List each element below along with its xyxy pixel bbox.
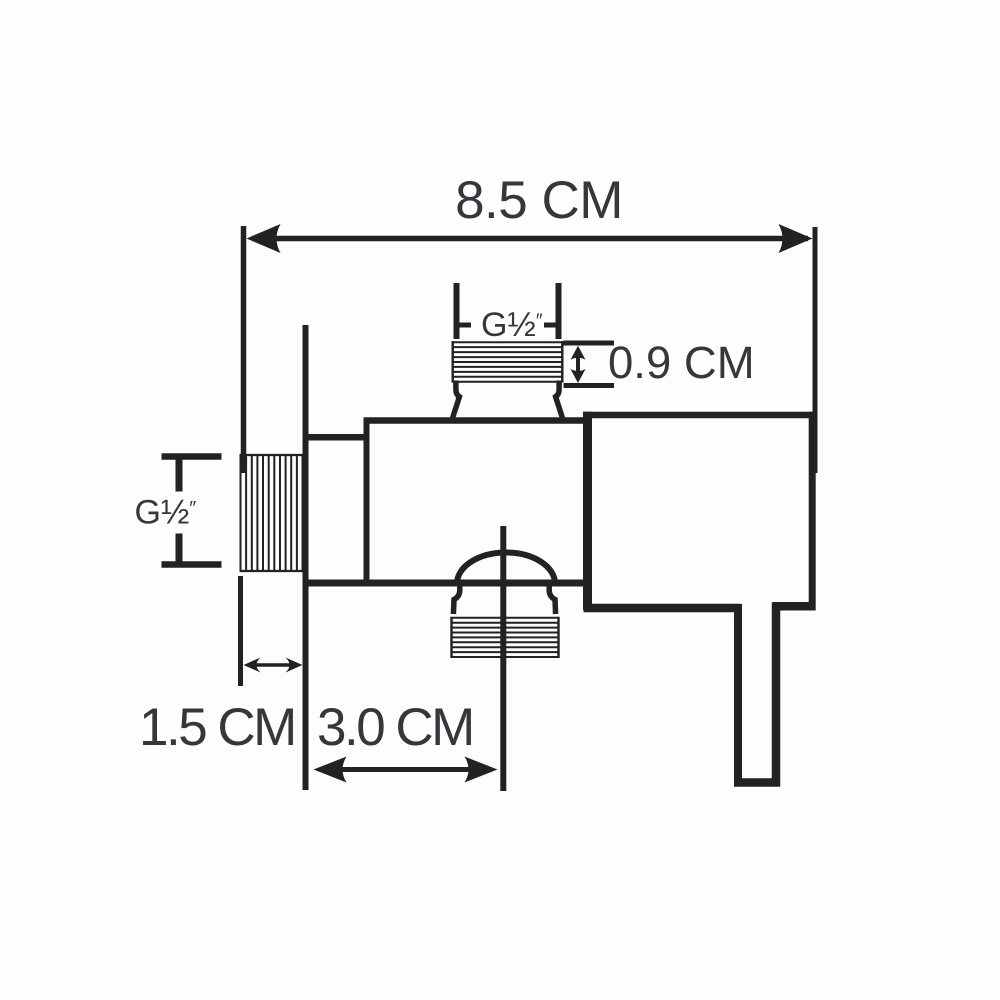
- dimension 1.5 CM label: [139, 698, 295, 757]
- svg-text:3.0 CM: 3.0 CM: [317, 698, 473, 757]
- bottom port collar left profile: [453, 583, 459, 614]
- dimension 0.9 CM tick bottom: [564, 383, 615, 388]
- left port G half-inch dimension stem upper: [176, 457, 183, 492]
- left port G half-inch dimension top bar: [162, 453, 222, 460]
- top port G half-inch label: [481, 306, 543, 344]
- dimension 8.5 CM arrowhead left: [247, 224, 281, 253]
- top port neck left profile: [453, 381, 460, 418]
- handle stem bottom edge: [734, 778, 780, 787]
- top port G half-inch tick right: [544, 323, 559, 328]
- dimension 1.5 CM extension line: [238, 576, 243, 686]
- valve body bottom edge: [303, 580, 589, 587]
- valve body left edge: [364, 418, 370, 587]
- bottom port threads: [452, 617, 559, 658]
- dimension 8.5 CM label: [455, 171, 623, 230]
- dimension 3.0 CM label: [317, 698, 473, 757]
- valve body right and handle block left column: [583, 412, 592, 610]
- valve body top edge: [364, 417, 590, 424]
- bottom port dome: [457, 553, 555, 584]
- dimension 1.5 CM arrowhead left: [244, 658, 261, 673]
- valve neck top edge: [303, 434, 367, 441]
- dimension 0.9 CM arrowhead up: [571, 346, 586, 360]
- bottom port collar right profile: [549, 583, 555, 614]
- handle stem left edge: [734, 604, 742, 786]
- dimension 8.5 CM extension line left: [241, 226, 247, 473]
- dimension 8.5 CM extension line right: [813, 227, 818, 473]
- dimension 8.5 CM line: [252, 236, 808, 242]
- bottom port centerline: [500, 526, 506, 791]
- dimension 0.9 CM arrowhead down: [571, 369, 586, 383]
- dimension 3.0 CM arrowhead left: [314, 757, 347, 783]
- top port neck right profile: [556, 381, 563, 418]
- handle stem right edge: [772, 603, 781, 787]
- wall flange line: [303, 325, 309, 790]
- svg-text:0.9 CM: 0.9 CM: [608, 337, 755, 388]
- left port G half-inch label: [135, 494, 197, 532]
- top port G half-inch extension line right: [556, 283, 562, 339]
- top port threads: [453, 341, 563, 383]
- svg-text:1.5 CM: 1.5 CM: [139, 698, 295, 757]
- dimension 1.5 CM arrowhead right: [286, 658, 303, 673]
- left port G half-inch dimension bottom bar: [162, 561, 222, 568]
- dimension 8.5 CM arrowhead right: [779, 224, 813, 253]
- dimension 0.9 CM tick top: [564, 341, 615, 346]
- dimension 3.0 CM arrow line: [320, 767, 491, 772]
- svg-text:G½″: G½″: [481, 306, 543, 344]
- top port G half-inch extension line left: [454, 283, 460, 339]
- top port G half-inch tick left: [457, 323, 472, 328]
- dimension 3.0 CM arrowhead right: [465, 757, 498, 783]
- left port threads: [240, 455, 304, 571]
- dimension 0.9 CM arrow stem: [576, 352, 580, 377]
- handle block bottom edge right segment: [773, 602, 816, 611]
- svg-text:G½″: G½″: [135, 494, 197, 532]
- dimension 1.5 CM arrow line: [250, 663, 296, 667]
- svg-text:8.5 CM: 8.5 CM: [455, 171, 623, 230]
- left port G half-inch dimension stem lower: [176, 534, 183, 565]
- handle block bottom edge left segment: [584, 604, 742, 613]
- dimension 0.9 CM label: [608, 337, 755, 388]
- handle block right edge: [809, 412, 816, 610]
- handle block top edge: [584, 412, 816, 419]
